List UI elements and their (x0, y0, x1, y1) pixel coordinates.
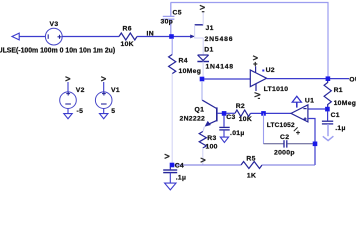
junction node F (C4/bottom rail) (170, 163, 175, 168)
svg-text:-5: -5 (77, 108, 84, 115)
svg-text:Q1: Q1 (195, 106, 205, 113)
wire bottom rail right segment (262, 164, 315, 166)
label U2 (262, 70, 264, 72)
transistor Q1 (202, 100, 217, 126)
svg-text:2N2222: 2N2222 (180, 116, 206, 123)
junction node B (R1/C1/U1 +in) (325, 107, 330, 112)
wire Q1 base to node C (218, 112, 223, 114)
voltage source V3 (45, 28, 62, 45)
net flag on R3 bottom wire (201, 158, 206, 162)
power flag triangle above U1 (292, 96, 301, 107)
junction node E (C2 right) (313, 142, 318, 147)
svg-text:.1µ: .1µ (176, 174, 187, 181)
JFET J1 (190, 12, 203, 55)
svg-text:LTC1052: LTC1052 (267, 122, 295, 129)
svg-text:.01µ: .01µ (230, 130, 245, 137)
svg-text:R1: R1 (334, 87, 343, 94)
svg-text:1K: 1K (247, 172, 256, 179)
svg-text:10Meg: 10Meg (334, 100, 356, 107)
wire bottom rail left segment (172, 164, 241, 166)
svg-text:2000p: 2000p (274, 149, 295, 156)
wire node E down to bottom rail corner (314, 146, 316, 165)
junction node D (R2/C2/U1 out) (261, 111, 266, 116)
capacitor C2 (264, 114, 314, 148)
wire R2 to U1 output (251, 112, 292, 114)
wire U2 output to OUT node (267, 78, 326, 80)
svg-text:OUT: OUT (349, 77, 356, 84)
wire V3 to port arrow (19, 36, 45, 38)
port arrow left (12, 33, 19, 40)
voltage source V1 (95, 92, 112, 109)
svg-text:R2: R2 (236, 103, 245, 110)
svg-text:R4: R4 (179, 58, 188, 65)
resistor R2 (235, 110, 251, 117)
svg-text:10Meg: 10Meg (179, 68, 202, 75)
resistor R3 (199, 132, 206, 149)
wire node B to U1 input (308, 108, 326, 110)
capacitor C4 (163, 167, 177, 173)
resistor R5 (241, 162, 262, 169)
svg-text:C2: C2 (280, 134, 289, 141)
svg-text:2N5486: 2N5486 (205, 36, 234, 43)
clock/V- marks below U1 (294, 127, 300, 134)
wire node C to R2 (226, 112, 235, 114)
svg-text:R6: R6 (123, 25, 132, 32)
wire R3 bottom to rail (202, 148, 204, 165)
svg-text:30p: 30p (161, 19, 174, 26)
wire Q1 emitter to R3 (203, 127, 204, 132)
junction node A (D1/Q1/U2) (200, 77, 205, 82)
capacitor C3 (219, 116, 229, 130)
svg-text:10K: 10K (121, 41, 134, 48)
svg-text:R3: R3 (207, 135, 216, 142)
ground under C4 (165, 173, 176, 190)
svg-text:C5: C5 (173, 10, 182, 17)
net flag above J1 drain (200, 5, 205, 11)
svg-text:C3: C3 (226, 114, 235, 121)
svg-text:C1: C1 (331, 112, 340, 119)
net flag above V2 (65, 77, 70, 81)
junction IN node (169, 34, 174, 39)
diode D1 (197, 55, 209, 62)
ground under V1 (100, 109, 108, 119)
svg-text:100: 100 (206, 143, 218, 150)
svg-text:IN: IN (147, 30, 154, 37)
wire U1 lower input to C2 node (308, 119, 315, 143)
resistor R6 (119, 33, 137, 40)
wire OUT stub (330, 78, 349, 80)
svg-text:PULSE(-100m 100m 0 10n 10n 1m: PULSE(-100m 100m 0 10n 10n 1m 2u) (0, 48, 115, 55)
svg-text:V1: V1 (111, 87, 120, 94)
ground under V2 (64, 109, 72, 119)
op-amp U1 LTC1052 (291, 105, 308, 122)
net flag above V1 (101, 77, 106, 81)
wire D1 to node A (202, 62, 204, 78)
svg-text:U1: U1 (305, 98, 314, 105)
op-amp buffer U2 LT1010 (250, 66, 266, 91)
svg-text:U2: U2 (266, 67, 275, 74)
ground arrow under C1 (323, 124, 334, 141)
wire feedback top rail from C5 to OUT node (171, 3, 329, 78)
wire node A to U2 input (204, 78, 250, 80)
ground under C3 (220, 130, 228, 143)
junction node C (base/R2/C3) (222, 111, 227, 116)
capacitor C5 (163, 3, 175, 35)
svg-text:V2: V2 (76, 87, 85, 94)
wire node A down to Q1 collector (201, 81, 203, 100)
svg-text:D1: D1 (204, 47, 213, 54)
svg-text:V3: V3 (50, 21, 59, 28)
net flag at node F (165, 154, 170, 158)
wire V2 top stub (67, 82, 69, 92)
svg-text:C4: C4 (175, 162, 184, 169)
wire V3 to R6 (62, 36, 119, 38)
svg-text:R5: R5 (246, 156, 255, 163)
svg-text:.1µ: .1µ (335, 125, 346, 132)
wire R6 to J1 gate (net IN) (137, 36, 191, 38)
svg-text:1N4148: 1N4148 (206, 64, 234, 71)
wire V1 top stub (103, 82, 105, 92)
svg-text:10K: 10K (239, 116, 252, 123)
resistor R4 (171, 39, 173, 55)
svg-text:J1: J1 (206, 25, 214, 32)
junction OUT node (326, 76, 331, 81)
net flag -V below U2 (255, 93, 261, 99)
net flag +V above U2 (253, 56, 258, 66)
voltage source V2 (60, 92, 77, 109)
wire R4 bottom to bottom rail (171, 74, 173, 163)
svg-text:LT1010: LT1010 (264, 86, 289, 93)
capacitor C1 (322, 111, 333, 124)
svg-text:5: 5 (111, 108, 115, 115)
resistor R1 (324, 81, 331, 107)
